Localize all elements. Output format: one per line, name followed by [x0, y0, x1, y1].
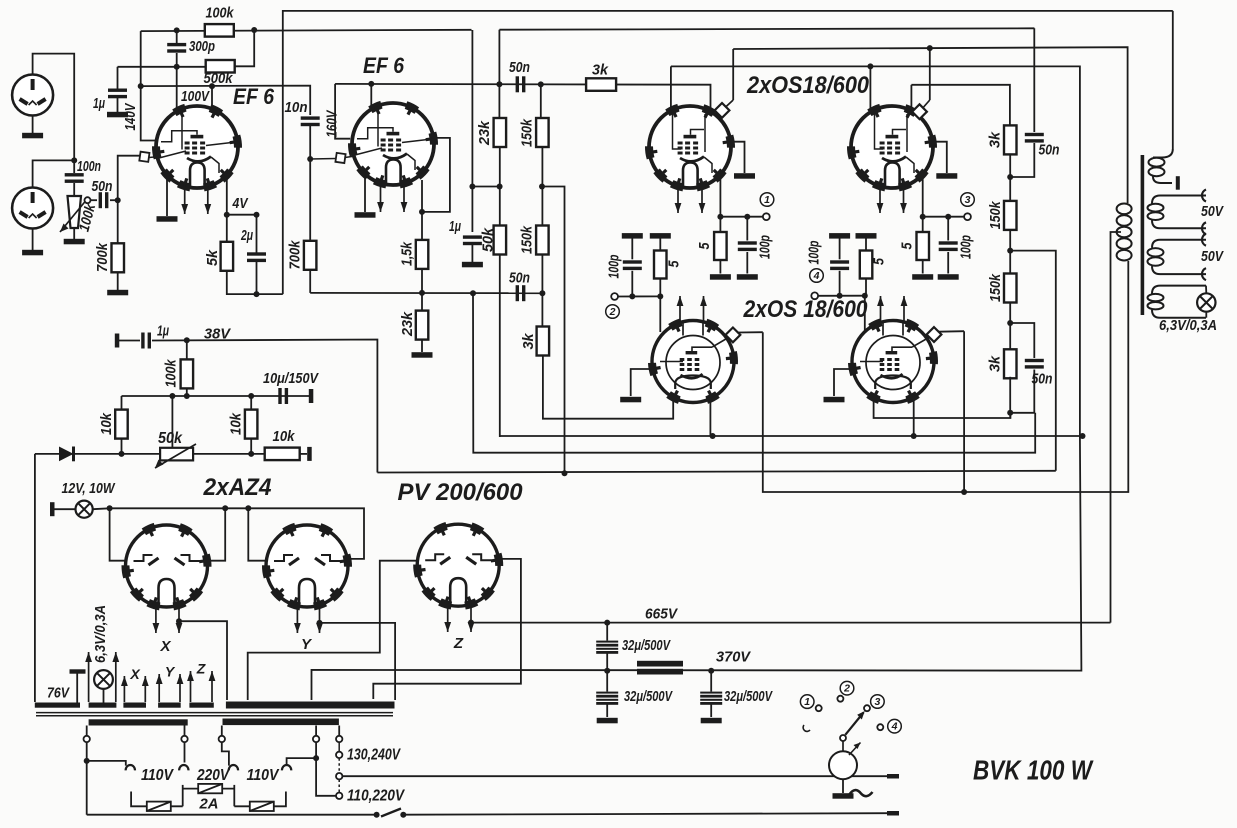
svg-text:3k: 3k [987, 131, 1003, 148]
svg-text:50k: 50k [480, 227, 496, 252]
svg-text:100V: 100V [181, 89, 210, 105]
svg-text:X: X [159, 638, 171, 655]
svg-text:Z: Z [196, 661, 206, 677]
svg-text:6,3V/0,3A: 6,3V/0,3A [1159, 318, 1217, 334]
svg-text:3k: 3k [521, 333, 537, 350]
svg-text:2xAZ4: 2xAZ4 [203, 474, 272, 501]
svg-text:100n: 100n [77, 159, 101, 175]
svg-text:150k: 150k [519, 225, 535, 254]
svg-text:6,3V/0,3A: 6,3V/0,3A [93, 605, 109, 663]
svg-text:10μ/150V: 10μ/150V [263, 371, 319, 387]
svg-text:Z: Z [453, 635, 464, 652]
svg-text:700k: 700k [287, 240, 303, 270]
svg-text:110,220V: 110,220V [347, 788, 405, 805]
svg-text:2: 2 [843, 682, 850, 694]
svg-text:110V: 110V [141, 767, 175, 784]
svg-text:10k: 10k [228, 412, 244, 435]
svg-text:10k: 10k [99, 412, 115, 435]
svg-text:1μ: 1μ [93, 96, 105, 112]
svg-text:23k: 23k [400, 311, 416, 337]
svg-text:5: 5 [666, 260, 682, 268]
svg-text:10n: 10n [285, 100, 308, 116]
svg-text:32μ/500V: 32μ/500V [624, 688, 673, 705]
svg-text:1: 1 [764, 194, 770, 206]
svg-text:140V: 140V [123, 102, 139, 130]
svg-text:5: 5 [899, 242, 915, 250]
svg-text:1μ: 1μ [157, 323, 169, 339]
svg-text:2xOS 18/600: 2xOS 18/600 [743, 296, 868, 323]
svg-text:3k: 3k [592, 62, 609, 78]
svg-text:100p: 100p [806, 240, 822, 264]
svg-text:5: 5 [871, 257, 887, 265]
svg-text:100k: 100k [163, 359, 179, 388]
svg-text:700k: 700k [95, 242, 111, 272]
svg-text:130,240V: 130,240V [347, 747, 401, 764]
svg-text:76V: 76V [47, 685, 70, 701]
svg-text:EF 6: EF 6 [363, 53, 405, 78]
svg-text:5k: 5k [205, 249, 221, 266]
svg-text:10k: 10k [273, 429, 296, 445]
svg-text:1,5k: 1,5k [399, 241, 415, 266]
svg-text:1μ: 1μ [449, 219, 461, 235]
svg-text:4: 4 [891, 720, 898, 732]
svg-text:3: 3 [874, 696, 880, 708]
svg-text:50n: 50n [1039, 142, 1060, 158]
svg-text:50V: 50V [1201, 248, 1225, 265]
svg-text:2xOS18/600: 2xOS18/600 [746, 72, 869, 99]
svg-text:160V: 160V [324, 109, 340, 137]
svg-text:38V: 38V [204, 326, 231, 342]
svg-text:220V: 220V [196, 767, 230, 784]
svg-text:300p: 300p [189, 39, 215, 55]
svg-text:500k: 500k [204, 71, 234, 87]
svg-text:5: 5 [697, 242, 713, 250]
svg-text:X: X [129, 666, 141, 682]
svg-text:100k: 100k [206, 5, 235, 21]
svg-text:3: 3 [965, 194, 971, 206]
svg-text:2: 2 [609, 306, 616, 318]
svg-text:1: 1 [804, 696, 810, 708]
svg-text:4: 4 [813, 270, 820, 282]
svg-text:665V: 665V [645, 606, 678, 622]
svg-text:100p: 100p [757, 235, 773, 259]
svg-text:PV 200/600: PV 200/600 [398, 479, 524, 506]
svg-text:4V: 4V [232, 196, 249, 212]
svg-text:150k: 150k [519, 118, 535, 147]
svg-text:100p: 100p [606, 254, 622, 278]
svg-text:2A: 2A [199, 795, 219, 812]
svg-text:EF 6: EF 6 [233, 84, 275, 109]
svg-text:100p: 100p [958, 235, 974, 259]
svg-text:50n: 50n [92, 179, 113, 195]
svg-text:50n: 50n [509, 60, 530, 76]
svg-text:150k: 150k [988, 273, 1004, 302]
svg-text:32μ/500V: 32μ/500V [622, 637, 671, 654]
svg-text:150k: 150k [988, 201, 1004, 230]
svg-text:50V: 50V [1201, 203, 1225, 220]
svg-text:23k: 23k [477, 120, 493, 146]
svg-text:50k: 50k [158, 430, 183, 447]
svg-text:BVK 100 W: BVK 100 W [973, 754, 1094, 785]
svg-text:32μ/500V: 32μ/500V [724, 688, 773, 705]
svg-text:370V: 370V [716, 649, 751, 665]
svg-text:50n: 50n [509, 270, 530, 286]
svg-text:2μ: 2μ [240, 228, 253, 244]
svg-text:3k: 3k [987, 355, 1003, 372]
svg-text:12V, 10W: 12V, 10W [62, 481, 116, 497]
svg-text:110V: 110V [247, 767, 281, 784]
